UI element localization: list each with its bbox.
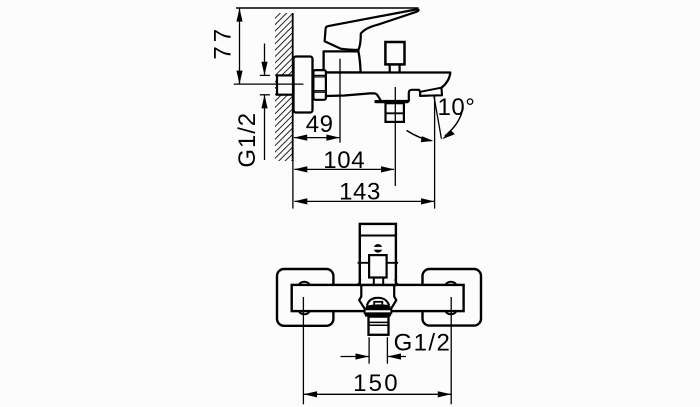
spout tip (front view) white mask	[359, 296, 397, 313]
centerline left union	[302, 297, 304, 404]
10 degree slant line	[434, 95, 442, 138]
wall face line	[292, 13, 294, 161]
spout shoulders	[359, 285, 365, 310]
svg-text:143: 143	[339, 179, 381, 206]
wall face extension line (down to 143 dim)	[292, 161, 294, 209]
body bar (front view)	[292, 285, 464, 311]
centerline right union	[450, 297, 452, 404]
svg-text:150: 150	[353, 370, 400, 397]
left wall plate	[277, 269, 333, 326]
cartridge base (trapezoid)	[324, 51, 361, 72]
dimension 143	[294, 200, 434, 202]
svg-text:49: 49	[306, 111, 334, 138]
svg-text:10°: 10°	[438, 94, 476, 121]
diverter knob	[385, 42, 404, 64]
left union bumps	[299, 282, 310, 290]
spray face rect	[374, 302, 382, 306]
lever handle (side view)	[325, 9, 419, 50]
diverter knob stem	[389, 63, 391, 73]
svg-text:G1/2: G1/2	[234, 112, 261, 168]
hex nut (side view)	[313, 70, 326, 100]
faucet body + spout (side view)	[326, 73, 450, 102]
aerator black bottom	[365, 313, 391, 316]
shower outlet flange (under body)	[374, 100, 408, 103]
dimension 150	[304, 393, 451, 395]
G1/2 dimension arrows (front)	[341, 356, 369, 358]
top extension line	[236, 7, 419, 9]
handle base flares	[358, 279, 361, 285]
angle arc left w/ arrow	[407, 130, 432, 140]
screw	[374, 244, 383, 253]
right wall plate	[423, 269, 482, 326]
escutcheon (wall plate, side view)	[294, 57, 313, 113]
shower outlet pipe	[386, 103, 404, 122]
inlet pipe centerline	[234, 83, 304, 85]
svg-text:77: 77	[210, 25, 237, 60]
outlet pipe (front view)	[369, 317, 389, 335]
handle mid line with ticks	[358, 262, 399, 264]
dimension 77 line	[239, 9, 241, 84]
angle arc right w/ arrow	[445, 113, 462, 136]
dimension 104	[294, 168, 394, 170]
handle (front view)	[360, 224, 396, 285]
wall hatching	[275, 13, 293, 161]
extension line: outlet axis (104)	[394, 87, 396, 186]
right union bumps	[446, 282, 457, 290]
svg-text:104: 104	[323, 147, 365, 174]
G1/2 extension lines (front)	[368, 337, 370, 364]
G1/2 dimension (pipe diameter)	[264, 44, 266, 75]
dimension 49	[294, 137, 339, 139]
aerator on spout	[420, 88, 442, 96]
handle cap line	[360, 235, 396, 237]
aerator dark band	[366, 304, 391, 309]
svg-text:G1/2: G1/2	[394, 330, 452, 357]
lever grip square	[369, 255, 387, 277]
inlet pipe in wall	[277, 75, 293, 94]
extension line: spout tip / angle reference (143)	[434, 96, 436, 209]
grip stem	[373, 278, 375, 285]
aerator white ring	[365, 309, 392, 313]
spout arch	[367, 298, 389, 306]
extension line: cartridge axis (49)	[339, 59, 341, 143]
